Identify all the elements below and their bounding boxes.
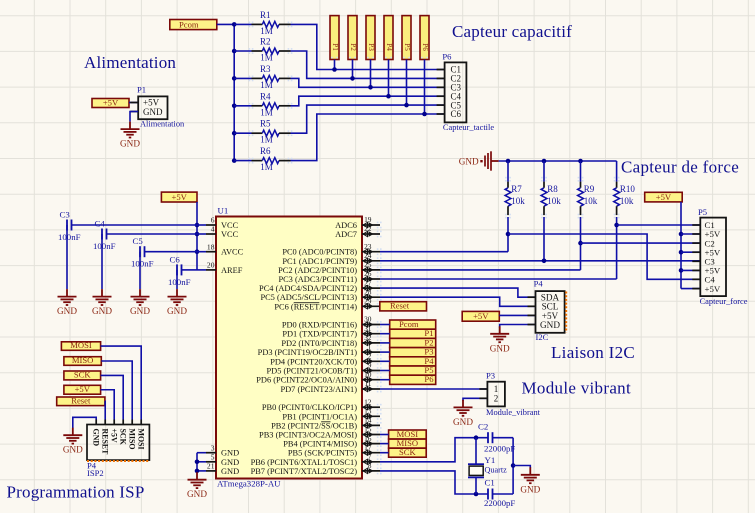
wire MOSI (380, 434, 389, 436)
wire pad P5 down (406, 60, 408, 106)
svg-text:R7: R7 (511, 184, 522, 194)
svg-text:+5V: +5V (103, 98, 119, 108)
net label P5 (chip) (390, 366, 436, 375)
junction rail R7 (506, 159, 511, 164)
svg-text:26: 26 (364, 269, 372, 278)
svg-text:12: 12 (364, 397, 372, 406)
svg-text:PD2 (INT0/PCINT18): PD2 (INT0/PCINT18) (281, 339, 357, 348)
svg-text:PC4 (ADC4/SDA/PCINT12): PC4 (ADC4/SDA/PCINT12) (259, 284, 357, 293)
net label MOSI (ISP) (61, 342, 100, 351)
power port +5V (force) (645, 192, 683, 202)
svg-text:2: 2 (368, 352, 372, 361)
ground symbol chip (196, 472, 198, 480)
svg-text:1M: 1M (260, 80, 273, 90)
junction pad P4 (386, 94, 391, 99)
power port +5V (i2c) (462, 311, 499, 321)
svg-text:MOSI: MOSI (70, 340, 92, 350)
svg-text:+5V: +5V (656, 192, 672, 202)
wire bus to R2 (234, 50, 251, 52)
wire crystal right vertical (512, 438, 514, 494)
svg-text:P5: P5 (403, 43, 411, 51)
wire MISO (380, 443, 389, 445)
svg-text:PC6 (RESET/PCINT14): PC6 (RESET/PCINT14) (274, 302, 357, 311)
wire vcc stubs (197, 224, 206, 226)
svg-text:R1: R1 (260, 10, 271, 20)
svg-text:ADC6: ADC6 (335, 221, 357, 230)
svg-text:I2C: I2C (536, 332, 549, 342)
net label SCK (chip) (389, 448, 427, 457)
wire P3 pin2 gnd (463, 398, 487, 401)
svg-text:C2: C2 (478, 422, 488, 432)
svg-text:21: 21 (207, 462, 215, 471)
junction gnd 21 (195, 469, 200, 474)
wire +5V force vertical (680, 202, 682, 289)
svg-text:PC2 (ADC2/PCINT10): PC2 (ADC2/PCINT10) (278, 266, 357, 275)
wire PD7 to P3 pin1 (380, 388, 487, 390)
svg-text:1: 1 (368, 342, 372, 351)
wire pad P2 down (352, 60, 354, 79)
svg-text:Y1: Y1 (485, 455, 496, 465)
connector P4 I2C (536, 291, 565, 333)
svg-text:23: 23 (364, 242, 372, 251)
svg-text:15: 15 (364, 425, 372, 434)
net label Reset (chip) (380, 302, 427, 311)
junction +5V rail (195, 232, 200, 237)
junction +5V rail (195, 249, 200, 254)
svg-text:PD7 (PCINT23/AIN1): PD7 (PCINT23/AIN1) (280, 385, 357, 394)
net label SCK (ISP) (64, 371, 101, 380)
svg-text:Liaison I2C: Liaison I2C (551, 343, 635, 362)
svg-text:Capteur_force: Capteur_force (700, 297, 748, 306)
svg-text:PD6 (PCINT22/OC0A/AIN0): PD6 (PCINT22/OC0A/AIN0) (256, 376, 357, 385)
svg-text:Module vibrant: Module vibrant (522, 379, 632, 398)
touch pad port P2 (348, 16, 357, 60)
svg-text:C6: C6 (451, 109, 462, 119)
svg-text:R2: R2 (260, 37, 271, 47)
svg-text:ISP2: ISP2 (87, 468, 104, 478)
svg-text:10: 10 (364, 370, 372, 379)
svg-text:SCK: SCK (399, 447, 417, 457)
wire +5V to P4 (499, 314, 535, 316)
svg-text:PB5 (SCK/PCINT5): PB5 (SCK/PCINT5) (288, 449, 357, 458)
wire crystal gnd (513, 466, 530, 469)
svg-text:Alimentation: Alimentation (140, 120, 185, 129)
capacitor C1 22000pF (487, 489, 489, 500)
net port Pcom (170, 20, 217, 30)
svg-text:PB1 (PCINT1/OC1A): PB1 (PCINT1/OC1A) (282, 412, 357, 421)
svg-text:C6: C6 (170, 254, 181, 264)
error marker ISP2 (87, 460, 150, 462)
svg-text:RESET: RESET (101, 429, 110, 456)
svg-text:28: 28 (364, 287, 372, 296)
touch pad port P3 (366, 16, 375, 60)
junction rail R8 (542, 159, 547, 164)
junction pad P5 (404, 103, 409, 108)
svg-text:1M: 1M (260, 162, 273, 172)
wire PB6 to C2 row (380, 438, 488, 462)
svg-text:GND: GND (221, 449, 239, 458)
svg-text:19: 19 (364, 215, 372, 224)
wire C3 to ground (66, 225, 68, 289)
junction gnd 5 (195, 460, 200, 465)
ground symbol C3 (66, 289, 68, 297)
svg-text:Capteur de force: Capteur de force (621, 158, 739, 177)
svg-text:GND: GND (167, 306, 187, 316)
svg-text:PB7 (PCINT7/XTAL2/TOSC2): PB7 (PCINT7/XTAL2/TOSC2) (251, 467, 358, 476)
svg-text:8: 8 (368, 461, 372, 470)
svg-text:MISO: MISO (72, 355, 94, 365)
svg-text:22000pF: 22000pF (484, 444, 515, 454)
wire R8 net: PC1 to C3 straight (380, 260, 700, 262)
resistor R5 1M (252, 132, 263, 134)
ground symbol crystal (529, 467, 531, 475)
svg-text:5: 5 (211, 453, 215, 462)
svg-text:GND: GND (459, 156, 479, 166)
svg-text:MISO: MISO (128, 429, 137, 450)
svg-text:Alimentation: Alimentation (84, 53, 176, 72)
junction +5V force (679, 268, 684, 273)
svg-text:6: 6 (211, 216, 215, 225)
svg-text:GND: GND (490, 343, 510, 353)
capacitor C2 22000pF (487, 432, 489, 443)
svg-text:10k: 10k (511, 196, 525, 206)
connector P6 (445, 62, 467, 122)
svg-text:AVCC: AVCC (221, 248, 244, 257)
net label MOSI (chip) (389, 430, 427, 439)
junction pad P6 (422, 112, 427, 117)
wire SCK (380, 452, 389, 454)
ground symbol C6 (176, 289, 178, 297)
touch pad port P5 (402, 16, 411, 60)
svg-text:+5V: +5V (473, 311, 489, 321)
capacitor C3 100nF (66, 220, 68, 231)
svg-text:PD4 (PCINT20/XCK/T0): PD4 (PCINT20/XCK/T0) (270, 357, 357, 366)
svg-text:30: 30 (364, 315, 372, 324)
junction +5V force (679, 232, 684, 237)
crystal Y1 Quartz (475, 438, 477, 465)
svg-text:20: 20 (207, 261, 215, 270)
wire bus to R3 (234, 77, 251, 79)
resistor R2 1M (252, 50, 263, 52)
wire ISP2 gnd (95, 420, 97, 425)
junction crystal gnd (511, 463, 516, 468)
net label P2 (chip) (390, 338, 436, 347)
svg-text:P1: P1 (331, 43, 339, 51)
svg-text:2: 2 (494, 394, 499, 404)
touch pad port P4 (384, 16, 393, 60)
net label P4 (chip) (390, 357, 436, 366)
ground symbol P3 (462, 400, 464, 408)
svg-text:P4: P4 (385, 43, 393, 51)
junction pad P3 (368, 85, 373, 90)
wire gnd rail (499, 160, 617, 162)
ground symbol ISP (72, 428, 74, 436)
ground symbol C5 (139, 289, 141, 297)
svg-text:P2: P2 (349, 43, 357, 51)
svg-text:PB6 (PCINT6/XTAL1/TOSC1): PB6 (PCINT6/XTAL1/TOSC1) (251, 458, 358, 467)
op U1 ATmega328P-AU body (216, 217, 362, 479)
resistor R1 1M (252, 23, 263, 25)
svg-text:4: 4 (211, 225, 215, 234)
svg-text:PD0 (RXD/PCINT16): PD0 (RXD/PCINT16) (282, 321, 357, 330)
svg-text:R8: R8 (547, 184, 558, 194)
svg-text:PC5 (ADC5/SCL/PCINT13): PC5 (ADC5/SCL/PCINT13) (260, 293, 357, 302)
svg-text:14: 14 (364, 416, 372, 425)
svg-text:PB3 (PCINT3/OC2A/MOSI): PB3 (PCINT3/OC2A/MOSI) (259, 431, 357, 440)
junction rail R9 (578, 159, 583, 164)
svg-text:GND: GND (63, 445, 83, 455)
net label Pcom (chip) (390, 320, 436, 329)
svg-text:+5V: +5V (172, 192, 188, 202)
svg-text:R5: R5 (260, 119, 271, 129)
ground symbol i2c (499, 326, 501, 334)
svg-text:VCC: VCC (221, 230, 239, 239)
wire +5V to P1 (129, 102, 138, 104)
svg-text:Module_vibrant: Module_vibrant (486, 408, 541, 417)
svg-text:PB2 (PCINT2/SS/OC1B): PB2 (PCINT2/SS/OC1B) (271, 421, 357, 430)
svg-text:10k: 10k (547, 196, 561, 206)
wire SCK to ISP2 (101, 375, 124, 419)
touch pad port P6 (420, 16, 429, 60)
power port +5V (vcc) (161, 192, 197, 202)
svg-text:Capteur capacitif: Capteur capacitif (452, 22, 572, 41)
svg-text:P5: P5 (698, 207, 707, 217)
connector P5 pin stubs (692, 224, 700, 226)
net label P1 (chip) (390, 329, 436, 338)
svg-text:3: 3 (211, 443, 215, 452)
net label P3 (chip) (390, 348, 436, 357)
svg-text:22000pF: 22000pF (484, 498, 515, 508)
net label +5V (ISP) (64, 385, 101, 394)
svg-text:9: 9 (368, 361, 372, 370)
wire MOSI to ISP2 (101, 346, 142, 419)
svg-text:PC3 (ADC3/PCINT11): PC3 (ADC3/PCINT11) (278, 275, 357, 284)
svg-text:13: 13 (364, 407, 372, 416)
junction bus R6 (232, 158, 237, 163)
svg-text:R10: R10 (620, 184, 636, 194)
resistor R4 1M (252, 105, 263, 107)
svg-text:100nF: 100nF (58, 232, 81, 242)
svg-text:GND: GND (221, 458, 239, 467)
svg-text:SCK: SCK (119, 429, 128, 446)
junction +5V rail (195, 223, 200, 228)
wire bus to R5 (234, 132, 251, 134)
svg-text:PC1 (ADC1/PCINT9): PC1 (ADC1/PCINT9) (282, 257, 357, 266)
ground symbol (alimentation) (129, 122, 131, 130)
svg-text:10k: 10k (620, 196, 634, 206)
capacitor C6 100nF (176, 264, 178, 275)
svg-text:PC0 (ADC0/PCINT8): PC0 (ADC0/PCINT8) (282, 248, 357, 257)
wire P1 GND (130, 112, 138, 122)
wire R5 to node C5 (291, 105, 445, 133)
junction pad P2 (350, 76, 355, 81)
svg-text:25: 25 (364, 260, 372, 269)
svg-text:U1: U1 (218, 206, 229, 216)
wire +5V to ISP2 (101, 390, 115, 420)
wire chip gnd pins (196, 453, 198, 472)
wire bus to R6 (234, 160, 251, 162)
svg-text:16: 16 (364, 434, 372, 443)
wire pad P4 down (388, 60, 390, 97)
junction pad P1 (332, 67, 337, 72)
resistor R6 1M (252, 160, 263, 162)
svg-text:P6: P6 (424, 374, 434, 384)
wire C4 to chip (107, 233, 198, 235)
wire R9 net: PC2 to C2 branch (380, 269, 581, 271)
svg-text:GND: GND (520, 484, 540, 494)
svg-text:31: 31 (364, 324, 372, 333)
net label Reset (ISP) (57, 397, 105, 406)
wire C6 to ground (176, 270, 178, 289)
wire bus to R1 (234, 23, 251, 25)
junction bus R5 (232, 131, 237, 136)
svg-text:GND: GND (57, 306, 77, 316)
wire R4 to node C4 (291, 96, 445, 106)
svg-text:ATmega328P-AU: ATmega328P-AU (217, 479, 281, 489)
connector P5 (700, 218, 726, 297)
connector P1 (138, 96, 167, 119)
svg-text:10k: 10k (584, 196, 598, 206)
wire pad P3 down (370, 60, 372, 88)
svg-text:Reset: Reset (390, 301, 410, 311)
svg-text:R4: R4 (260, 91, 271, 101)
junction +5V force (679, 250, 684, 255)
wire pad P1 down (334, 60, 336, 70)
wire C5 to ground (139, 252, 141, 289)
net label MISO (ISP) (64, 357, 101, 366)
svg-text:GND: GND (187, 489, 207, 499)
svg-text:+5V: +5V (110, 429, 119, 443)
svg-text:7: 7 (368, 452, 372, 461)
svg-text:100nF: 100nF (93, 241, 116, 251)
svg-text:P4: P4 (534, 279, 544, 289)
svg-text:+5V: +5V (75, 384, 91, 394)
resistor R9 10k (580, 161, 582, 182)
junction C2 crystal (474, 435, 479, 440)
bus wire vertical R1-R6 (233, 24, 235, 160)
svg-text:Pcom: Pcom (179, 19, 199, 29)
resistor R7 10k (507, 161, 509, 182)
wire PC5 to SCL (380, 297, 536, 306)
svg-text:GND: GND (143, 107, 163, 117)
svg-text:C1: C1 (485, 478, 495, 488)
power port +5V (alimentation) (92, 99, 129, 108)
svg-text:22: 22 (364, 224, 372, 233)
svg-text:PD5 (PCINT21/OC0B/T1): PD5 (PCINT21/OC0B/T1) (266, 367, 357, 376)
svg-text:Quartz: Quartz (485, 466, 508, 475)
svg-text:GND: GND (540, 320, 560, 330)
ground symbol C4 (101, 289, 103, 297)
svg-text:GND: GND (453, 417, 473, 427)
resistor R8 10k (543, 161, 545, 182)
svg-text:VCC: VCC (221, 221, 239, 230)
wire R1 to node C1 (291, 24, 445, 69)
junction bus R2 (232, 49, 237, 54)
svg-text:R9: R9 (584, 184, 595, 194)
svg-text:Reset: Reset (71, 395, 91, 405)
svg-text:1M: 1M (260, 53, 273, 63)
connector P3 (487, 382, 505, 407)
wire R3 to node C3 (291, 78, 445, 87)
wire PC4 to SDA (380, 288, 536, 297)
U1 left pin names stubs numbers (206, 216, 244, 476)
error marker P4 (565, 292, 567, 333)
wire Pcom to bus (217, 23, 234, 25)
wire R10 net: PC3 to C1 branch (380, 278, 617, 280)
connector P3 pin stubs (479, 388, 487, 390)
svg-text:MOSI: MOSI (137, 429, 146, 450)
wire R7 net: PC0 to C4 branch (380, 251, 508, 253)
wire P4 gnd (500, 325, 536, 329)
svg-text:C5: C5 (133, 236, 144, 246)
resistor R3 1M (252, 77, 263, 79)
wire PB7 to C1 row (380, 471, 488, 494)
capacitor C4 100nF (101, 229, 103, 240)
svg-text:C3: C3 (60, 210, 71, 220)
svg-text:PD1 (TXD/PCINT17): PD1 (TXD/PCINT17) (282, 330, 357, 339)
svg-text:PB0 (PCINT0/CLKO/ICP1): PB0 (PCINT0/CLKO/ICP1) (262, 403, 357, 412)
wire C5 to chip (145, 251, 198, 253)
svg-text:P3: P3 (486, 371, 495, 381)
wire pad P6 down (424, 60, 426, 115)
resistor R10 10k (616, 161, 618, 182)
svg-text:P1: P1 (137, 85, 146, 95)
svg-text:GND: GND (92, 429, 101, 447)
svg-text:PB4 (PCINT4/MISO): PB4 (PCINT4/MISO) (283, 440, 357, 449)
svg-text:18: 18 (207, 242, 215, 251)
U1 right pin names (251, 221, 358, 476)
svg-text:1M: 1M (260, 107, 273, 117)
wire bus to R4 (234, 105, 251, 107)
junction C1 crystal (474, 492, 479, 497)
wire MISO to ISP2 (101, 361, 132, 420)
wire C6 to chip (182, 269, 198, 271)
wire R6 to node C6 (291, 114, 445, 161)
svg-text:ADC7: ADC7 (335, 230, 357, 239)
wire C3 to chip (72, 224, 198, 226)
wire +5V rail vertical (196, 202, 198, 270)
svg-text:SCK: SCK (74, 370, 92, 380)
svg-text:27: 27 (364, 278, 372, 287)
svg-text:Pcom: Pcom (399, 319, 419, 329)
svg-text:32: 32 (364, 333, 372, 342)
svg-text:24: 24 (364, 251, 372, 260)
svg-text:100nF: 100nF (168, 277, 191, 287)
svg-text:29: 29 (364, 297, 372, 306)
svg-text:GND: GND (130, 306, 150, 316)
svg-text:R3: R3 (260, 64, 271, 74)
junction bus R4 (232, 104, 237, 109)
svg-text:1M: 1M (260, 135, 273, 145)
wire C1 right (493, 493, 514, 495)
U1 right pin stubs and numbers (362, 215, 382, 474)
svg-text:GND: GND (120, 139, 140, 149)
svg-text:11: 11 (364, 379, 371, 388)
net label P6 (chip) (390, 375, 436, 384)
svg-text:17: 17 (364, 443, 372, 452)
svg-text:1M: 1M (260, 26, 273, 36)
connector P4 pin stubs (528, 296, 536, 298)
connector P1 pin stubs (130, 102, 138, 104)
svg-text:R6: R6 (260, 146, 271, 156)
junction bus R3 (232, 76, 237, 81)
connector P6 pin stubs (437, 69, 445, 71)
connector ISP2 (87, 425, 149, 461)
svg-text:C4: C4 (95, 219, 106, 229)
svg-text:P6: P6 (421, 43, 429, 51)
svg-text:P6: P6 (442, 51, 452, 61)
net label MISO (chip) (389, 439, 427, 448)
